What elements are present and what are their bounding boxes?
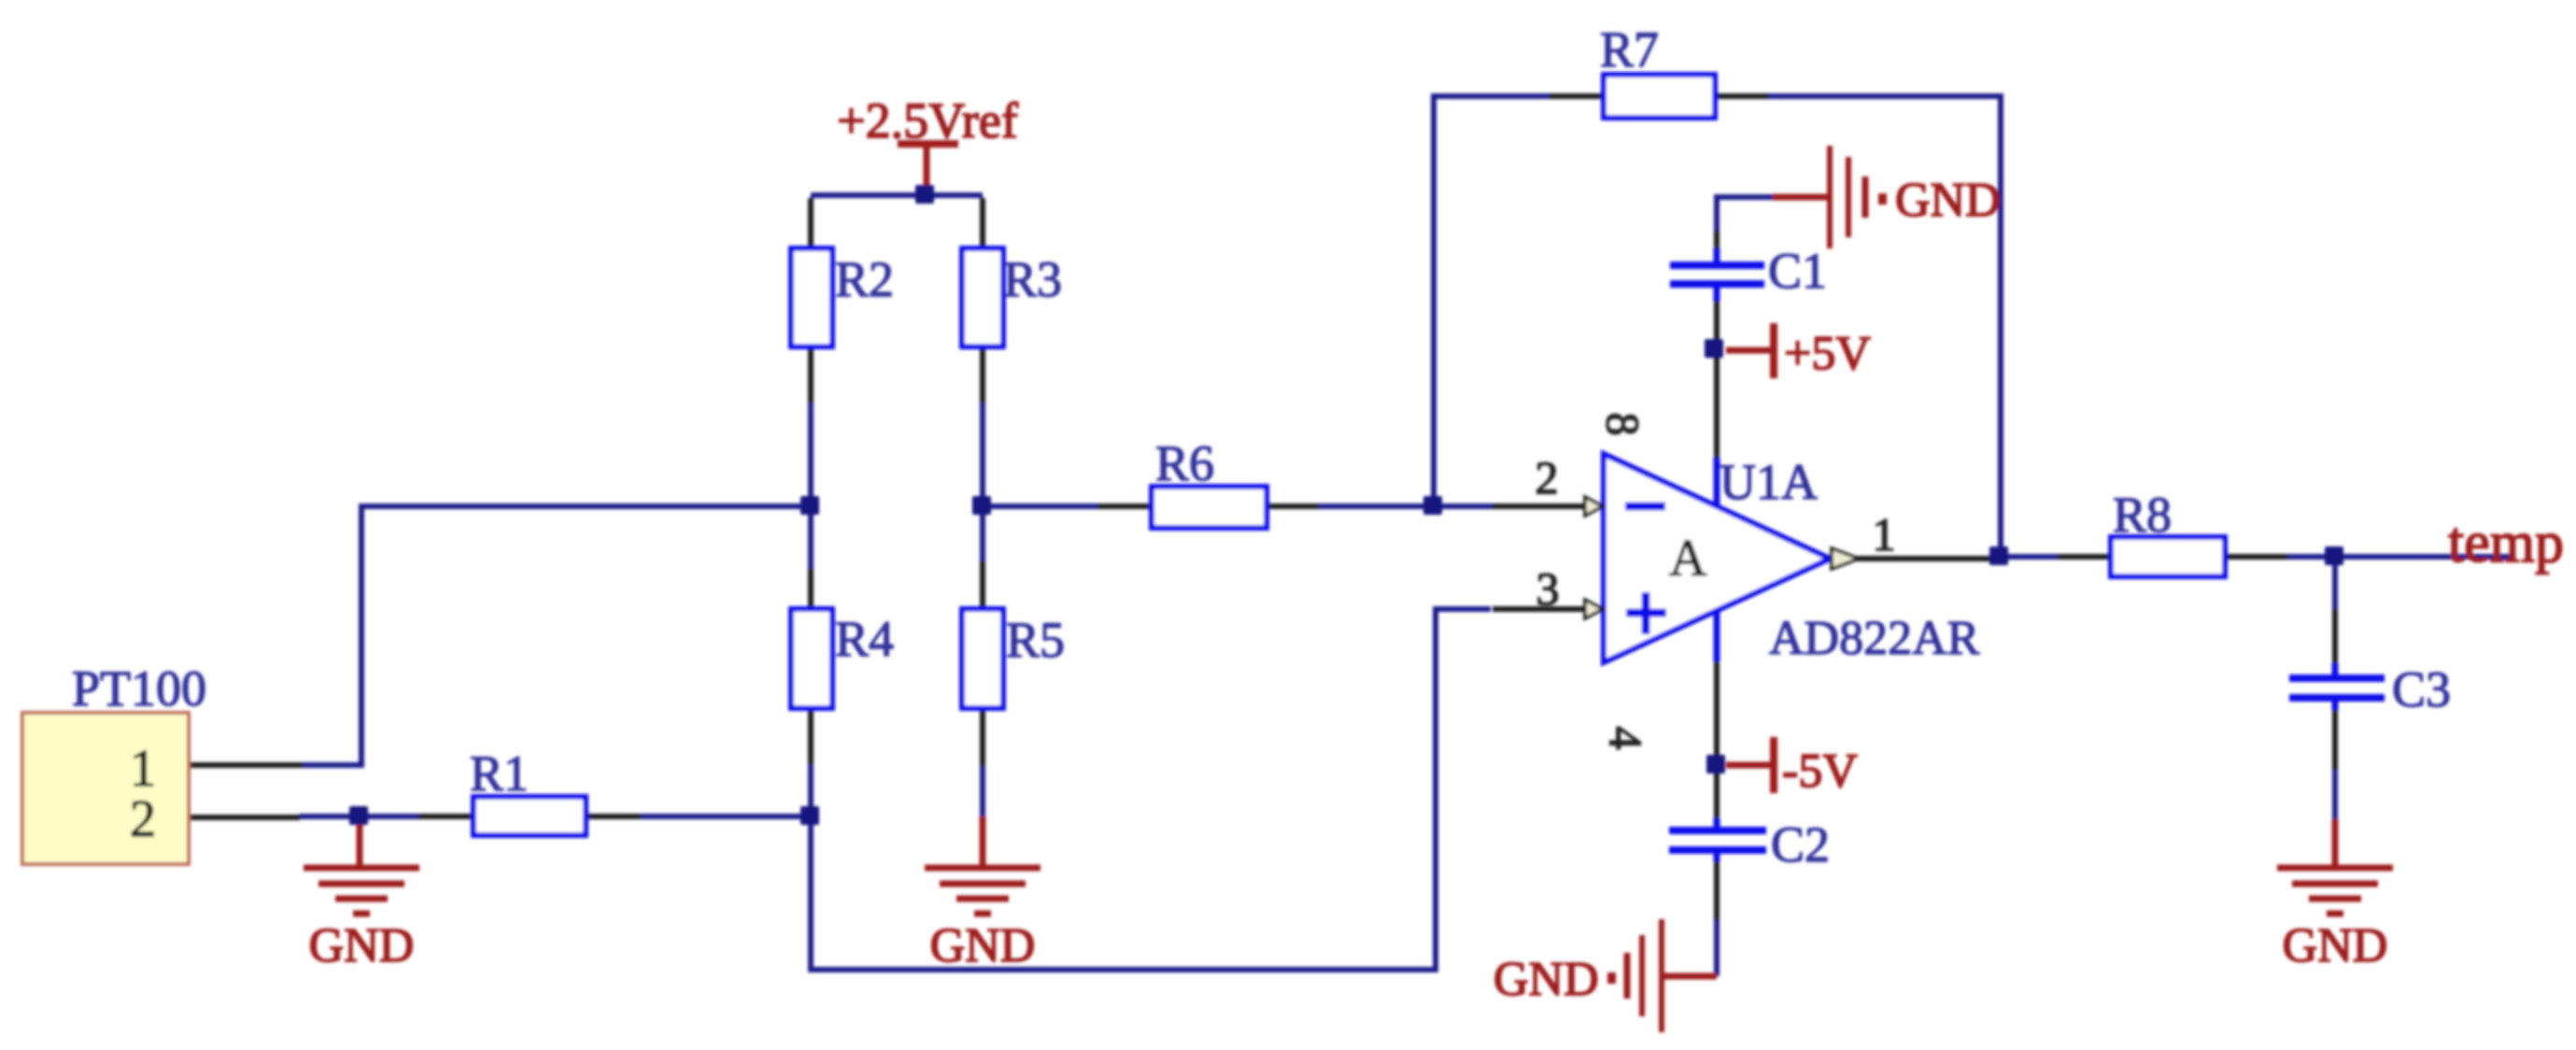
svg-text:temp: temp [2448,511,2564,575]
svg-text:GND: GND [1493,953,1599,1006]
svg-text:AD822AR: AD822AR [1769,612,1980,665]
svg-text:GND: GND [1895,174,2001,227]
svg-text:U1A: U1A [1720,454,1818,510]
svg-text:R3: R3 [1003,251,1062,307]
svg-text:C2: C2 [1771,816,1830,873]
svg-text:1: 1 [1873,508,1896,560]
svg-text:R7: R7 [1600,21,1659,78]
svg-text:R5: R5 [1006,612,1065,668]
svg-text:+5V: +5V [1784,327,1871,380]
svg-text:C1: C1 [1768,243,1827,299]
svg-text:R6: R6 [1155,435,1214,491]
svg-text:R2: R2 [835,251,894,307]
svg-text:PT100: PT100 [72,660,206,717]
svg-text:1: 1 [130,740,156,798]
svg-text:GND: GND [930,919,1036,972]
svg-text:4: 4 [1600,727,1652,750]
svg-text:+2.5Vref: +2.5Vref [837,92,1018,149]
svg-text:8: 8 [1597,413,1649,436]
svg-text:2: 2 [1536,451,1559,504]
svg-text:3: 3 [1536,562,1560,615]
svg-text:C3: C3 [2392,661,2451,717]
svg-text:R1: R1 [470,745,529,802]
svg-text:A: A [1669,530,1707,588]
svg-text:R8: R8 [2113,487,2172,543]
svg-text:GND: GND [2283,919,2388,972]
svg-text:R4: R4 [835,611,894,667]
svg-text:2: 2 [130,790,156,848]
svg-text:-5V: -5V [1782,745,1858,798]
svg-text:GND: GND [309,919,415,972]
